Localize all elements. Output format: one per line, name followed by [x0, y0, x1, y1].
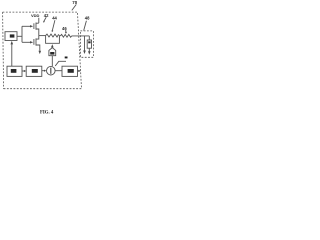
wire box3 to mixer circle with arrowhead	[42, 70, 45, 72]
leader numeral 42	[44, 17, 47, 21]
wire box1 output to gate bus	[17, 35, 22, 37]
svg-text:VDD: VDD	[31, 13, 40, 18]
leader from circle up-right	[55, 61, 66, 66]
wire gate lead Q1 with arrowhead	[22, 25, 30, 27]
outer dashed enclosure box	[3, 12, 82, 89]
wire circle to box4	[55, 70, 62, 72]
transistor Q1 (PMOS, top)	[34, 23, 39, 36]
block box3	[26, 66, 42, 76]
reference element (pentagon with label)	[49, 48, 56, 56]
reference numeral 70 leader (top right)	[72, 4, 77, 10]
leader numeral 44	[52, 20, 55, 30]
mixer/source circle	[47, 66, 56, 75]
resistor R1 (zigzag)	[46, 34, 60, 37]
wire VDD stub	[38, 18, 40, 23]
wire feedback vertical box2 to box1 with up arrowhead	[11, 44, 13, 66]
up arrowhead into loop	[51, 44, 54, 47]
wire gate lead Q2 with arrowhead	[22, 41, 30, 43]
block box2	[7, 66, 22, 76]
wire output node to resistor	[39, 35, 46, 37]
svg-text:70: 70	[72, 0, 77, 5]
block box4	[62, 66, 78, 76]
wire box2 to box3 with arrowhead	[22, 70, 24, 72]
wire output stub with arrowhead	[78, 70, 79, 72]
wire pentagon to circle	[51, 56, 53, 66]
wire R2 to load box	[72, 35, 90, 37]
wire parallel loop under R1	[46, 36, 60, 44]
svg-text:48: 48	[85, 16, 90, 21]
leader to load box numeral	[84, 21, 87, 31]
transistor Q2 (NMOS, bottom)	[34, 36, 40, 51]
leader numeral 46	[65, 30, 67, 32]
svg-text:42: 42	[44, 13, 49, 18]
load element box (branch 2)	[88, 36, 90, 40]
wire load branch 1	[84, 36, 86, 51]
small dashed load box	[80, 31, 93, 57]
numeral 52	[65, 57, 68, 59]
wire R1 to R2	[59, 35, 60, 37]
svg-text:46: 46	[62, 26, 67, 31]
ground arrow (VSS) below Q2	[39, 51, 42, 54]
resistor R2 (zigzag)	[60, 34, 71, 37]
svg-text:FIG. 4: FIG. 4	[40, 111, 54, 116]
wire gate bus vertical	[21, 26, 23, 42]
block box1	[5, 32, 17, 41]
svg-text:44: 44	[52, 15, 57, 20]
